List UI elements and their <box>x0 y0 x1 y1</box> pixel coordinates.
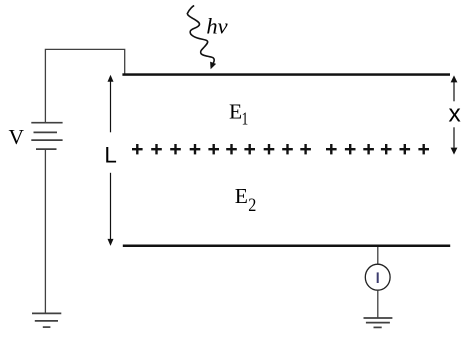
svg-text:hν: hν <box>206 14 227 39</box>
svg-text:x: x <box>449 101 461 128</box>
svg-text:E: E <box>229 100 242 124</box>
svg-text:2: 2 <box>248 194 256 216</box>
svg-text:L: L <box>104 143 116 168</box>
svg-text:1: 1 <box>242 109 249 129</box>
svg-text:E: E <box>235 184 248 208</box>
svg-text:V: V <box>9 125 25 149</box>
